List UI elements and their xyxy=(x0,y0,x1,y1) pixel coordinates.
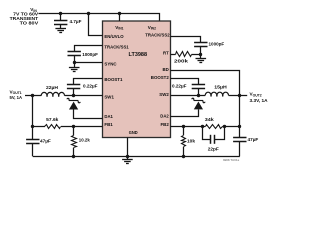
svg-text:10k: 10k xyxy=(187,138,195,143)
svg-text:BD: BD xyxy=(163,67,170,72)
svg-text:BOOST2: BOOST2 xyxy=(151,75,169,80)
resistor 57.6k xyxy=(45,125,61,129)
junction GND stub / rail xyxy=(126,155,129,158)
wire C-1000pF-2 to junction xyxy=(200,46,202,54)
resistor 10k xyxy=(182,136,186,147)
capacitor 4.7uF input bypass xyxy=(54,20,67,22)
wire L1 right lead xyxy=(65,95,74,97)
svg-text:TRACK/SS1: TRACK/SS1 xyxy=(104,44,129,49)
wire L2 left lead xyxy=(198,95,205,97)
inductor 15µH xyxy=(205,92,228,95)
svg-text:RT: RT xyxy=(163,51,169,56)
diode D2 Schottky catch (SW2-DA2) xyxy=(194,100,203,102)
wire R57.6k right lead xyxy=(61,126,74,128)
svg-text:200k: 200k xyxy=(174,59,188,64)
op-amp-style IC U1 LT3988 body xyxy=(103,21,171,138)
junction SW2 node xyxy=(197,94,200,97)
wire GND pin stub xyxy=(127,138,129,157)
wire C-boost2 to SW2 node xyxy=(198,89,200,96)
svg-text:4.7µF: 4.7µF xyxy=(70,19,82,24)
wire D2 anode to DA2 pin xyxy=(171,110,199,117)
ground below 4.7uF xyxy=(55,28,66,30)
wire SW2 pin xyxy=(171,95,199,97)
wire R10k top lead xyxy=(183,127,185,136)
wire R10k bottom lead xyxy=(183,147,185,157)
svg-text:1000pF: 1000pF xyxy=(209,42,225,47)
wire C47uF-2 to rail xyxy=(239,142,241,157)
wire VIN rail xyxy=(39,14,160,21)
svg-text:57.6k: 57.6k xyxy=(46,117,59,122)
wire VOUT1 column to C47uF xyxy=(32,127,34,140)
junction R10.2k / ground rail xyxy=(72,155,75,158)
svg-text:FB2: FB2 xyxy=(161,122,170,127)
svg-text:0.22µF: 0.22µF xyxy=(83,84,98,89)
capacitor 47µF output 2 xyxy=(233,137,246,139)
wire VOUT2 column upper xyxy=(239,96,241,127)
svg-text:VOUT2: VOUT2 xyxy=(250,92,262,98)
svg-text:34k: 34k xyxy=(205,117,214,122)
svg-text:GND: GND xyxy=(129,130,138,135)
svg-text:47µF: 47µF xyxy=(40,139,51,144)
junction VOUT1 column / R57.6k xyxy=(31,125,34,128)
junction FB2 / R34k / C22pF left xyxy=(201,125,204,128)
wire VOUT1 stub xyxy=(25,95,33,97)
svg-text:22pF: 22pF xyxy=(208,147,219,152)
wire D1 anode to DA1 pin xyxy=(74,110,103,119)
wire ground rail xyxy=(33,156,240,158)
wire BOOST2 pin xyxy=(171,79,199,85)
svg-text:1000pF: 1000pF xyxy=(82,52,98,57)
resistor 200k xyxy=(176,52,192,57)
junction VIN rail / C4.7uF xyxy=(59,12,62,15)
resistor 34k xyxy=(206,125,223,129)
capacitor 22pF feedforward xyxy=(210,135,212,144)
svg-text:LT3988: LT3988 xyxy=(129,52,148,58)
svg-text:SW1: SW1 xyxy=(104,94,114,99)
capacitor 47µF output 1 xyxy=(26,139,39,141)
wire SS2 junction to ground xyxy=(200,54,202,58)
svg-text:0.22µF: 0.22µF xyxy=(172,84,187,89)
junction SW1 node xyxy=(72,94,75,97)
ground below SS1/SYNC xyxy=(69,67,80,69)
wire R10.2k bottom lead xyxy=(73,148,75,157)
capacitor 0.22uF boost 2 xyxy=(192,84,205,86)
svg-text:SYNC: SYNC xyxy=(104,62,117,67)
wire rail to ground symbol xyxy=(127,156,129,159)
inductor 22µH xyxy=(41,92,64,95)
wire C22pF left branch xyxy=(203,127,211,140)
svg-text:DA2: DA2 xyxy=(160,113,169,118)
junction SS2 cap / RT resistor / ground xyxy=(199,53,202,56)
wire R200k right lead xyxy=(192,54,201,56)
wire C-4.7uF to ground xyxy=(60,25,62,29)
svg-text:TRACK/SS2: TRACK/SS2 xyxy=(145,33,170,38)
wire VIN to C-4.7uF xyxy=(60,14,62,21)
wire C47uF-1 to rail xyxy=(32,143,34,156)
wire R57.6k left lead xyxy=(33,126,45,128)
capacitor 1000pF soft-start 1 xyxy=(68,51,81,53)
svg-text:3.3V, 1A: 3.3V, 1A xyxy=(250,98,269,103)
wire RT pin lead xyxy=(171,54,176,56)
wire C22pF right branch xyxy=(215,127,225,140)
wire VOUT1 column upper xyxy=(32,96,34,127)
svg-text:10.2k: 10.2k xyxy=(79,138,90,143)
junction SS1 cap / SYNC / ground xyxy=(73,61,76,64)
svg-text:FB1: FB1 xyxy=(104,122,113,127)
svg-text:DA1: DA1 xyxy=(104,114,113,119)
junction VIN rail / EN branch xyxy=(87,12,90,15)
junction FB2 / R10k xyxy=(182,125,185,128)
svg-text:5V, 1A: 5V, 1A xyxy=(10,95,23,100)
svg-text:22µH: 22µH xyxy=(46,85,59,90)
wire FB2 network to VOUT2 column xyxy=(225,126,240,128)
svg-text:TO 80V: TO 80V xyxy=(20,20,40,25)
diode D1 Schottky catch (SW1-DA1) xyxy=(69,100,78,102)
wire BD pin to VOUT2 column xyxy=(171,71,240,96)
wire R34k right lead xyxy=(222,126,225,128)
svg-text:47µF: 47µF xyxy=(248,137,259,142)
junction R10k / ground rail xyxy=(182,155,185,158)
junction VOUT2 column / FB2 network xyxy=(238,125,241,128)
wire VOUT2 stub xyxy=(240,95,247,97)
svg-text:EN/UVLO: EN/UVLO xyxy=(104,34,124,39)
wire VIN1 stub xyxy=(119,14,121,21)
junction VOUT2 node xyxy=(238,94,241,97)
resistor 10.2k xyxy=(72,136,77,148)
wire VOUT2 column to C47uF xyxy=(239,127,241,138)
svg-text:15µH: 15µH xyxy=(214,84,227,89)
ground symbol below rail xyxy=(122,159,133,161)
junction R34k / C22pF right xyxy=(223,125,226,128)
wire FB1 pin xyxy=(74,126,103,128)
svg-text:BOOST1: BOOST1 xyxy=(104,77,122,82)
junction VIN rail / VIN1 stub xyxy=(118,12,121,15)
wire TRACK/SS2 pin xyxy=(171,37,201,43)
wire L1 left lead xyxy=(33,95,41,97)
capacitor 0.22uF boost 1 xyxy=(67,84,80,86)
svg-text:SW2: SW2 xyxy=(159,92,169,97)
wire C-boost1 to SW1 node xyxy=(73,89,75,96)
wire L2 right lead xyxy=(229,95,240,97)
wire C-1000pF to SYNC junction xyxy=(74,56,76,63)
wire EN/UVLO to VIN xyxy=(89,14,103,36)
junction VOUT1 node xyxy=(31,94,34,97)
svg-text:3988 TA01a: 3988 TA01a xyxy=(223,158,240,162)
wire SS1 junction to ground xyxy=(74,63,76,67)
wire TRACK/SS1 pin xyxy=(75,46,103,52)
wire BOOST1 pin xyxy=(74,79,103,85)
wire FB2 pin xyxy=(171,126,203,128)
svg-text:VIN2: VIN2 xyxy=(148,25,156,31)
capacitor 1000pF soft-start 2 xyxy=(194,42,207,44)
wire R34k left lead xyxy=(203,126,206,128)
ground below SS2/RT xyxy=(196,58,207,60)
svg-text:VIN1: VIN1 xyxy=(115,25,123,31)
wire R10.2k top lead xyxy=(73,127,75,136)
wire SW1 pin xyxy=(74,95,103,97)
wire SYNC pin to ground xyxy=(74,62,102,64)
junction FB1 node xyxy=(72,125,75,128)
